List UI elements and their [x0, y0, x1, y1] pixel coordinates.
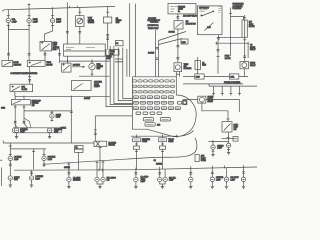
wire: long vertical from top area — [66, 3, 68, 45]
wire: stacked box down — [78, 152, 80, 170]
lamp E2 (park lamp) — [27, 18, 31, 24]
wire: cluster box drop left — [67, 56, 69, 63]
harness capsule outline — [13, 128, 62, 133]
horn relay coil circle — [242, 63, 247, 68]
wire: cluster link to harness — [79, 75, 110, 77]
wire: SB2 output down — [177, 29, 179, 63]
svg-text:G101: G101 — [1, 108, 5, 110]
gauge circle M1 — [77, 18, 83, 24]
svg-text:BLOCK: BLOCK — [249, 26, 256, 28]
hazard flasher box — [10, 84, 33, 92]
gauge needle M1 — [78, 19, 82, 23]
wire: right vertical from caption — [230, 8, 232, 42]
wire: drops bus2 to C6 pair — [160, 169, 165, 177]
fuse row4 (wide) — [133, 96, 173, 99]
wire: line to stop switch — [227, 111, 229, 122]
low vacuum switch box — [62, 63, 71, 72]
svg-text:JAMB SW: JAMB SW — [13, 63, 21, 66]
wire C9 ground lead — [226, 182, 228, 185]
connector on x67.3 — [66, 32, 69, 33]
wire: fuse block top feed pair — [176, 72, 179, 77]
svg-text:MARKER: MARKER — [73, 179, 81, 182]
ticks on link bus — [217, 42, 248, 45]
svg-text:C2: C2 — [116, 43, 118, 45]
gauge G1 mark — [91, 63, 94, 68]
tick on blower drop — [99, 147, 102, 149]
lamp C10 — [241, 177, 245, 183]
connector E1 top — [7, 15, 10, 17]
wire: vertical to fuse block a — [155, 30, 157, 77]
svg-text:A/T SHIFT SOL: A/T SHIFT SOL — [147, 24, 158, 27]
ground C9 — [225, 185, 228, 189]
wire C3 ground lead — [68, 182, 70, 185]
wire: top feed bus — [2, 6, 115, 11]
wire: stop switch down — [228, 132, 230, 141]
pin mark S2 — [29, 61, 31, 63]
wire C1 ground lead — [9, 180, 11, 183]
tick bus3 b — [162, 135, 164, 138]
wire: diagonal feed into harness — [15, 118, 31, 128]
ignition box inner text marks — [218, 7, 221, 13]
svg-text:C211: C211 — [230, 77, 234, 79]
tick branch 1 — [212, 93, 215, 95]
pin mark hazard — [12, 85, 14, 87]
connector C2 — [30, 172, 33, 173]
wire C2 ground lead — [31, 180, 33, 183]
wire: mid drop bus1 to bus2 — [33, 149, 35, 170]
tick FB top — [43, 153, 46, 155]
junction ticks on top bus — [53, 6, 78, 9]
tick on h61 left — [68, 59, 92, 62]
switch blade hazard — [12, 86, 20, 91]
ignition switch blade lower — [205, 23, 214, 31]
connector on pair upper — [156, 48, 159, 49]
wire: conn b to bus2 — [162, 149, 164, 169]
connector E3 bottom — [51, 25, 54, 27]
tick on S2 output — [28, 76, 31, 78]
tick chain b — [161, 143, 164, 145]
svg-text:FUSE BLOCK DETAIL: FUSE BLOCK DETAIL — [224, 81, 241, 84]
wire: relay output down and right — [202, 103, 228, 111]
wire: conn a chain down — [136, 142, 138, 146]
filament ML2 — [49, 129, 51, 131]
svg-text:SW: SW — [32, 105, 35, 107]
filament ML1 — [16, 129, 18, 131]
wire: harness vertical v4 — [123, 48, 133, 99]
tick below stop sw — [227, 136, 230, 138]
connector on x71.3 — [70, 111, 73, 112]
JB top pin — [244, 15, 246, 20]
wire: S2 output down to hazard box — [29, 67, 31, 85]
connector E2 top — [28, 15, 31, 17]
junction block JB2 — [195, 155, 199, 162]
connector C3 — [68, 173, 71, 174]
svg-text:GAUGE: GAUGE — [88, 21, 95, 24]
lamp C6a — [158, 177, 162, 183]
tick dome bottom — [50, 120, 53, 122]
label box CB2 — [109, 50, 119, 56]
bus: mid distribution — [15, 95, 110, 97]
connector on blower vert — [94, 133, 97, 134]
lamp C4b — [101, 177, 105, 183]
wire: ML2 ground lead — [49, 133, 51, 135]
ground C6 — [161, 185, 164, 189]
wire: drop to gauge G1 — [91, 61, 93, 63]
svg-text:A/C COMP RELAY: A/C COMP RELAY — [183, 14, 198, 17]
tick FA top — [9, 153, 12, 155]
fuse row5 — [133, 101, 182, 104]
lamp C8 — [210, 177, 214, 183]
connector FB bottom — [43, 164, 46, 165]
tick bus3 c — [176, 135, 178, 138]
conn box under fusebox b — [159, 138, 167, 142]
wire C5 ground lead — [135, 182, 137, 185]
blower motor box — [94, 141, 107, 146]
wire C4 ground lead — [97, 182, 103, 185]
connector C10 — [242, 172, 245, 173]
ground C2 — [30, 183, 33, 187]
cluster box divider — [64, 50, 106, 52]
wire: branch drop 4 — [239, 86, 241, 95]
instrument cluster upper box — [64, 44, 106, 56]
wire: E3 bottom into headlight switch — [45, 23, 53, 42]
wire: JB down to horn relay — [244, 37, 246, 61]
dimmer blade — [13, 101, 21, 104]
wire: harness vertical v0 — [106, 49, 132, 107]
brake warning relay box — [198, 96, 206, 103]
svg-text:CONN: CONN — [142, 141, 148, 143]
wire: branch drop 2 — [221, 86, 223, 95]
ground C1 — [9, 183, 12, 187]
lamp C4a — [95, 177, 99, 183]
wire: branch drop 3 — [230, 86, 232, 95]
connector C7 — [189, 173, 192, 174]
headlamp switch box — [40, 41, 52, 51]
dome lamp — [50, 113, 54, 119]
connector C8 — [211, 172, 214, 173]
wire: link to junction block — [217, 36, 242, 38]
connector on x177.9 lower — [177, 46, 180, 47]
svg-text:CONTROL: CONTROL — [150, 22, 158, 24]
wire: dimmer outputs down — [15, 105, 24, 128]
wire: x24 continue down — [24, 111, 28, 128]
pin mark inside headlamp switch — [41, 41, 44, 44]
fuse row6 — [133, 107, 180, 110]
switch box S2 (wide) — [27, 61, 45, 67]
svg-text:BLOCK: BLOCK — [225, 58, 232, 60]
lamp C9 — [224, 177, 228, 183]
wire: horizontal link at stop sw — [222, 138, 237, 140]
fuse row7 small labels — [136, 112, 162, 114]
fuse block lower connector boxes — [143, 118, 153, 121]
wire: feed line to cargo lamps — [209, 140, 229, 142]
connector C5 — [135, 173, 138, 174]
arrow from low vac switch — [72, 66, 85, 68]
fusible link F2 (narrow box) — [195, 60, 201, 69]
wire: link top to junction block — [231, 17, 244, 21]
wire UR2 feed from stop switch — [228, 141, 230, 143]
svg-text:CUTOUT SW: CUTOUT SW — [186, 23, 196, 25]
x-connector on x24 — [23, 121, 26, 123]
node tick above junction A — [28, 3, 31, 9]
wire: drop bus2 to C2 — [31, 170, 33, 175]
connector on x177.9 lower2 — [177, 58, 180, 59]
junction block JB (narrow box) — [242, 20, 247, 37]
svg-text:LAMP: LAMP — [12, 20, 18, 23]
wire: drop to lamp E2 — [28, 9, 30, 19]
svg-text:RELAY: RELAY — [208, 100, 214, 103]
wire: FB bottom — [43, 161, 45, 167]
wire: ignition bottom pin — [218, 35, 220, 41]
wire: drop from L1 to bus1 — [9, 143, 11, 149]
wire: harness vertical v5 — [126, 49, 128, 77]
wire: drop from bus to box M2 — [107, 7, 109, 17]
tick on x218 — [217, 55, 220, 57]
lamp C7 — [189, 177, 193, 183]
series box K2 — [230, 74, 239, 79]
svg-text:18 BRN: 18 BRN — [156, 164, 163, 166]
connector on pair — [156, 58, 159, 59]
ground C5 — [134, 185, 137, 189]
relay circle — [200, 97, 205, 102]
fuse row2 — [132, 85, 174, 87]
tick UR1 bottom — [212, 150, 215, 152]
connector FA bottom — [9, 164, 12, 165]
wire: drops sweep to C4 pair — [97, 161, 103, 177]
wire: drop to lamp FA — [9, 149, 11, 156]
svg-text:19A WHT: 19A WHT — [73, 64, 81, 67]
wire: conn b chain down — [162, 142, 164, 146]
connector on x177.9 — [177, 17, 180, 18]
connector below M2 — [106, 35, 109, 36]
wire: drop from bus to meter M1 — [79, 7, 81, 16]
wire C7 ground lead — [190, 182, 192, 185]
component box M2 — [104, 17, 112, 23]
connector block CB1 — [116, 41, 124, 46]
wire: left margin vertical — [1, 168, 3, 187]
wire: line y99.5 to right — [183, 100, 240, 112]
stop lamp switch box — [222, 122, 232, 132]
tick stop sw — [227, 118, 230, 120]
wire: L1 left upturn — [2, 141, 4, 144]
connector below M2 second — [106, 38, 109, 39]
junction ticks on dimmer verticals — [14, 106, 26, 108]
wire: M2 output down — [107, 23, 109, 50]
wire: FA bottom — [9, 161, 11, 176]
wire: cluster vertical down — [70, 96, 72, 143]
lamp C3 — [67, 177, 71, 183]
blower X symbol — [96, 142, 100, 146]
ground UR1 — [211, 153, 214, 157]
svg-text:FLASHER: FLASHER — [184, 67, 192, 70]
turn flasher relay RY1 — [174, 63, 182, 72]
lamp C1 (LF side) — [8, 175, 12, 181]
ground C3 — [67, 185, 70, 189]
lamp C6b — [163, 177, 167, 183]
fusible link box — [168, 4, 196, 14]
tick chain a — [135, 143, 138, 145]
ground ML1 — [15, 135, 18, 139]
tick on drop — [9, 145, 12, 147]
wire: blower feed horizontal — [95, 115, 132, 117]
junction tick on x230.5 — [229, 12, 232, 14]
cluster upper box interior marks — [66, 48, 95, 50]
svg-text:LAMP: LAMP — [33, 20, 39, 23]
upper right lamp UR2 — [226, 143, 230, 149]
ignition switch box — [198, 6, 223, 35]
wire: drop bus2 to C10 — [243, 168, 245, 177]
ground C10 — [242, 185, 245, 189]
wire: dome bottom — [51, 118, 53, 121]
switch blade SB2 — [176, 23, 182, 28]
wire: feeds into dimmer box — [15, 96, 24, 100]
lamp E1 (marker lamp) — [6, 18, 10, 24]
svg-text:ASM: ASM — [53, 48, 57, 51]
tick chain b2 — [161, 150, 164, 152]
svg-text:SIG SW: SIG SW — [46, 64, 52, 66]
C100 stacked box b — [75, 149, 84, 152]
tick on C3 drop — [67, 163, 70, 165]
svg-text:18 GRN: 18 GRN — [148, 53, 155, 55]
connector on x45 — [44, 54, 47, 55]
svg-text:CONN: CONN — [201, 160, 207, 162]
wire: drop from link bus — [230, 43, 232, 56]
connector on x8.5 wire — [7, 54, 10, 55]
svg-text:OFF RUN ST: OFF RUN ST — [199, 8, 210, 10]
svg-text:SOLENOID: SOLENOID — [233, 8, 242, 10]
wire: left edge stub — [0, 159, 2, 161]
connector on x29 wire — [28, 54, 31, 55]
tick branch 2 — [221, 93, 224, 95]
C100 stacked box a — [75, 146, 84, 149]
fuse block relay circle — [183, 100, 187, 104]
wire: left feed down to door switch — [8, 26, 10, 61]
wire: headlamp switch outputs down — [45, 49, 60, 63]
connector on x59.5 — [58, 54, 61, 55]
svg-text:RELAY: RELAY — [250, 64, 256, 67]
RY1 coil circle — [175, 65, 180, 70]
switch blade S1 — [3, 62, 11, 66]
connector E2 bottom — [28, 25, 31, 27]
wire C10 ground lead — [243, 182, 245, 185]
wire: feed line upper (to fuse block right) — [183, 76, 248, 78]
connector below G1 — [91, 73, 94, 75]
wire: E1 bottom down and right — [8, 23, 29, 30]
wire: vertical to fuse block b — [158, 41, 160, 77]
tick branch 4 — [238, 93, 241, 95]
wire: G1 output down — [91, 70, 93, 76]
series box K1 — [195, 74, 204, 79]
wire: M1 output down — [79, 27, 81, 44]
meter M1 box (gauge) — [76, 16, 84, 27]
cluster box — [72, 81, 92, 91]
pin dot upper — [200, 14, 202, 16]
svg-text:RELAY: RELAY — [250, 48, 256, 51]
connector below M1 — [78, 32, 81, 33]
ticks on C4 drops — [96, 161, 105, 163]
connector M2 top — [106, 11, 109, 13]
svg-text:W/ A/C COMP: W/ A/C COMP — [148, 27, 159, 30]
connector C6 — [158, 173, 161, 174]
lamp C2 — [29, 175, 33, 181]
ground C7 — [189, 185, 192, 189]
tick UR2 bottom — [227, 148, 230, 150]
svg-text:SW: SW — [234, 129, 237, 131]
wire: horn relay down — [243, 69, 245, 77]
wire UR2 ground lead — [228, 148, 230, 152]
small comp box near stop sw — [233, 137, 238, 142]
wire: horizontal to dome lamp — [24, 110, 71, 112]
fuse row1 — [132, 80, 174, 82]
fuse block outline with right lobe — [132, 77, 196, 137]
bus: front lamps bus1 — [10, 148, 46, 150]
marker lamp ML2 — [47, 128, 52, 133]
tick on blower vert — [94, 129, 97, 131]
junction ticks bus2 — [69, 165, 244, 172]
wire: conn a to bus2 — [136, 149, 138, 169]
switch box SB2 — [174, 21, 183, 29]
connector ignition pin — [217, 38, 220, 39]
svg-text:18 GRN: 18 GRN — [169, 31, 176, 33]
svg-text:C100: C100 — [182, 42, 186, 44]
svg-text:LAMPS: LAMPS — [94, 85, 101, 88]
connector dashes on bundle — [115, 59, 123, 62]
tick chain a2 — [135, 150, 138, 152]
wire: E2 bottom down to headlamp switch — [28, 23, 30, 61]
harness sweep curve — [44, 138, 197, 165]
fuse row3 — [132, 91, 174, 93]
wire: drop bus2 to C9 — [226, 168, 228, 177]
wire: drop sweep to C3 — [68, 163, 70, 177]
ground C4 — [98, 185, 101, 189]
upper right lamp UR1 — [211, 144, 215, 150]
wire: blower down to bus2 — [99, 147, 101, 170]
wire: upper right link bus — [215, 42, 248, 44]
wire: long vertical from top v6 — [129, 3, 131, 77]
tick dome top — [50, 111, 53, 113]
switch blade S2 — [31, 62, 42, 66]
svg-text:S CURRENT LIGHTING SYSTEM: S CURRENT LIGHTING SYSTEM — [10, 73, 37, 75]
wire: harness vertical v3 — [118, 48, 132, 101]
JB internal line — [244, 20, 246, 37]
connector on x218 — [217, 50, 220, 51]
connector on x244.7 — [243, 56, 246, 57]
switch blade cluster — [74, 84, 83, 90]
wire C6 ground lead — [160, 182, 165, 185]
wire: diagonal merge a — [159, 32, 187, 41]
wire UR1 feed — [212, 141, 214, 145]
svg-text:MOTOR: MOTOR — [109, 145, 116, 147]
wire: harness vertical v1 — [110, 46, 132, 105]
wire: drop bus2 to C7 — [190, 169, 192, 177]
wire UR1 ground lead — [212, 149, 214, 153]
wire: mid horizontal second — [60, 60, 110, 62]
wire: feed line lower — [183, 83, 243, 85]
wire: ML1 ground lead — [16, 133, 18, 135]
wire: blower vertical — [94, 116, 96, 141]
conn block b2 — [160, 146, 166, 149]
switch blade inside headlamp switch — [42, 44, 50, 50]
lamp C5 — [134, 177, 138, 183]
ground C8 — [211, 185, 214, 189]
svg-text:C1: C1 — [75, 147, 77, 149]
marker lamp ML1 — [14, 128, 19, 133]
lamp E3 (park lamp RH) — [50, 18, 54, 24]
tick on feed — [212, 140, 214, 143]
wire C8 ground lead — [211, 182, 213, 185]
stop switch blade — [224, 124, 231, 131]
wire: long vertical from top v7 — [135, 4, 137, 77]
